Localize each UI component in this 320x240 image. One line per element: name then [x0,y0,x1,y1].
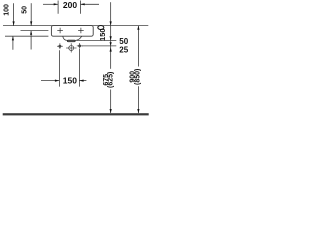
mounting cross left (with circle) [57,43,63,49]
drain flange [67,40,75,42]
dimension 150 bottom: right extension line [78,49,80,87]
basin bowl outline [63,36,82,40]
wire basin-bottom extension line L3 [5,35,48,37]
svg-text:50: 50 [21,6,28,14]
node rim reference line L1 [3,25,148,27]
fixing hole cross left [57,28,63,34]
dimension 100 upper line with down arrow [13,3,15,25]
dimension 200 left extension line [57,1,59,14]
dimension 200 right extension line [80,1,82,14]
wire fixing-hole level line L2 [21,30,49,32]
wire drain-bottom leader line L4 [77,40,117,42]
arrow down at rim [110,21,112,25]
dimension 200 left tail with right arrow [43,3,58,5]
svg-text:100: 100 [4,4,11,16]
arrow up at rim [137,26,139,30]
dimension 100 lower line with up arrow [12,36,14,50]
dimension 150 bottom: right tail with left arrow [79,80,86,82]
arrow down at L5 [110,42,112,46]
oval overflow mark [98,26,104,30]
dimension 900 (850) line [137,26,139,114]
svg-text:150: 150 [63,75,77,85]
mounting cross right (with circle) [77,43,83,49]
wire waste-center leader line L5 [82,45,116,47]
dimension 150 bottom: left tail with right arrow [41,80,59,82]
dimension 150 bottom: left extension line [58,50,60,86]
arrow down at floor [137,109,139,113]
dimension 50 upper line with down arrow [30,3,32,25]
svg-text:200: 200 [63,0,77,10]
dimension 50 lower line with up arrow [30,31,32,50]
svg-text:25: 25 [119,45,128,54]
fixing hole cross right [78,28,84,34]
arrow down at L4 [110,36,112,40]
arrow up at L5 [110,47,112,51]
arrow down at floor [110,109,112,113]
svg-text:150: 150 [98,28,107,41]
basin rim rectangle [51,26,93,37]
dimension line x=110.9 (150 / 50 / 25 / 675 stack) [110,2,112,113]
svg-text:(850): (850) [134,69,141,85]
dimension 200 right tail with left arrow [81,3,100,5]
svg-text:(625): (625) [108,72,115,88]
floor line [3,113,149,115]
waste crosshair circle [66,43,77,52]
